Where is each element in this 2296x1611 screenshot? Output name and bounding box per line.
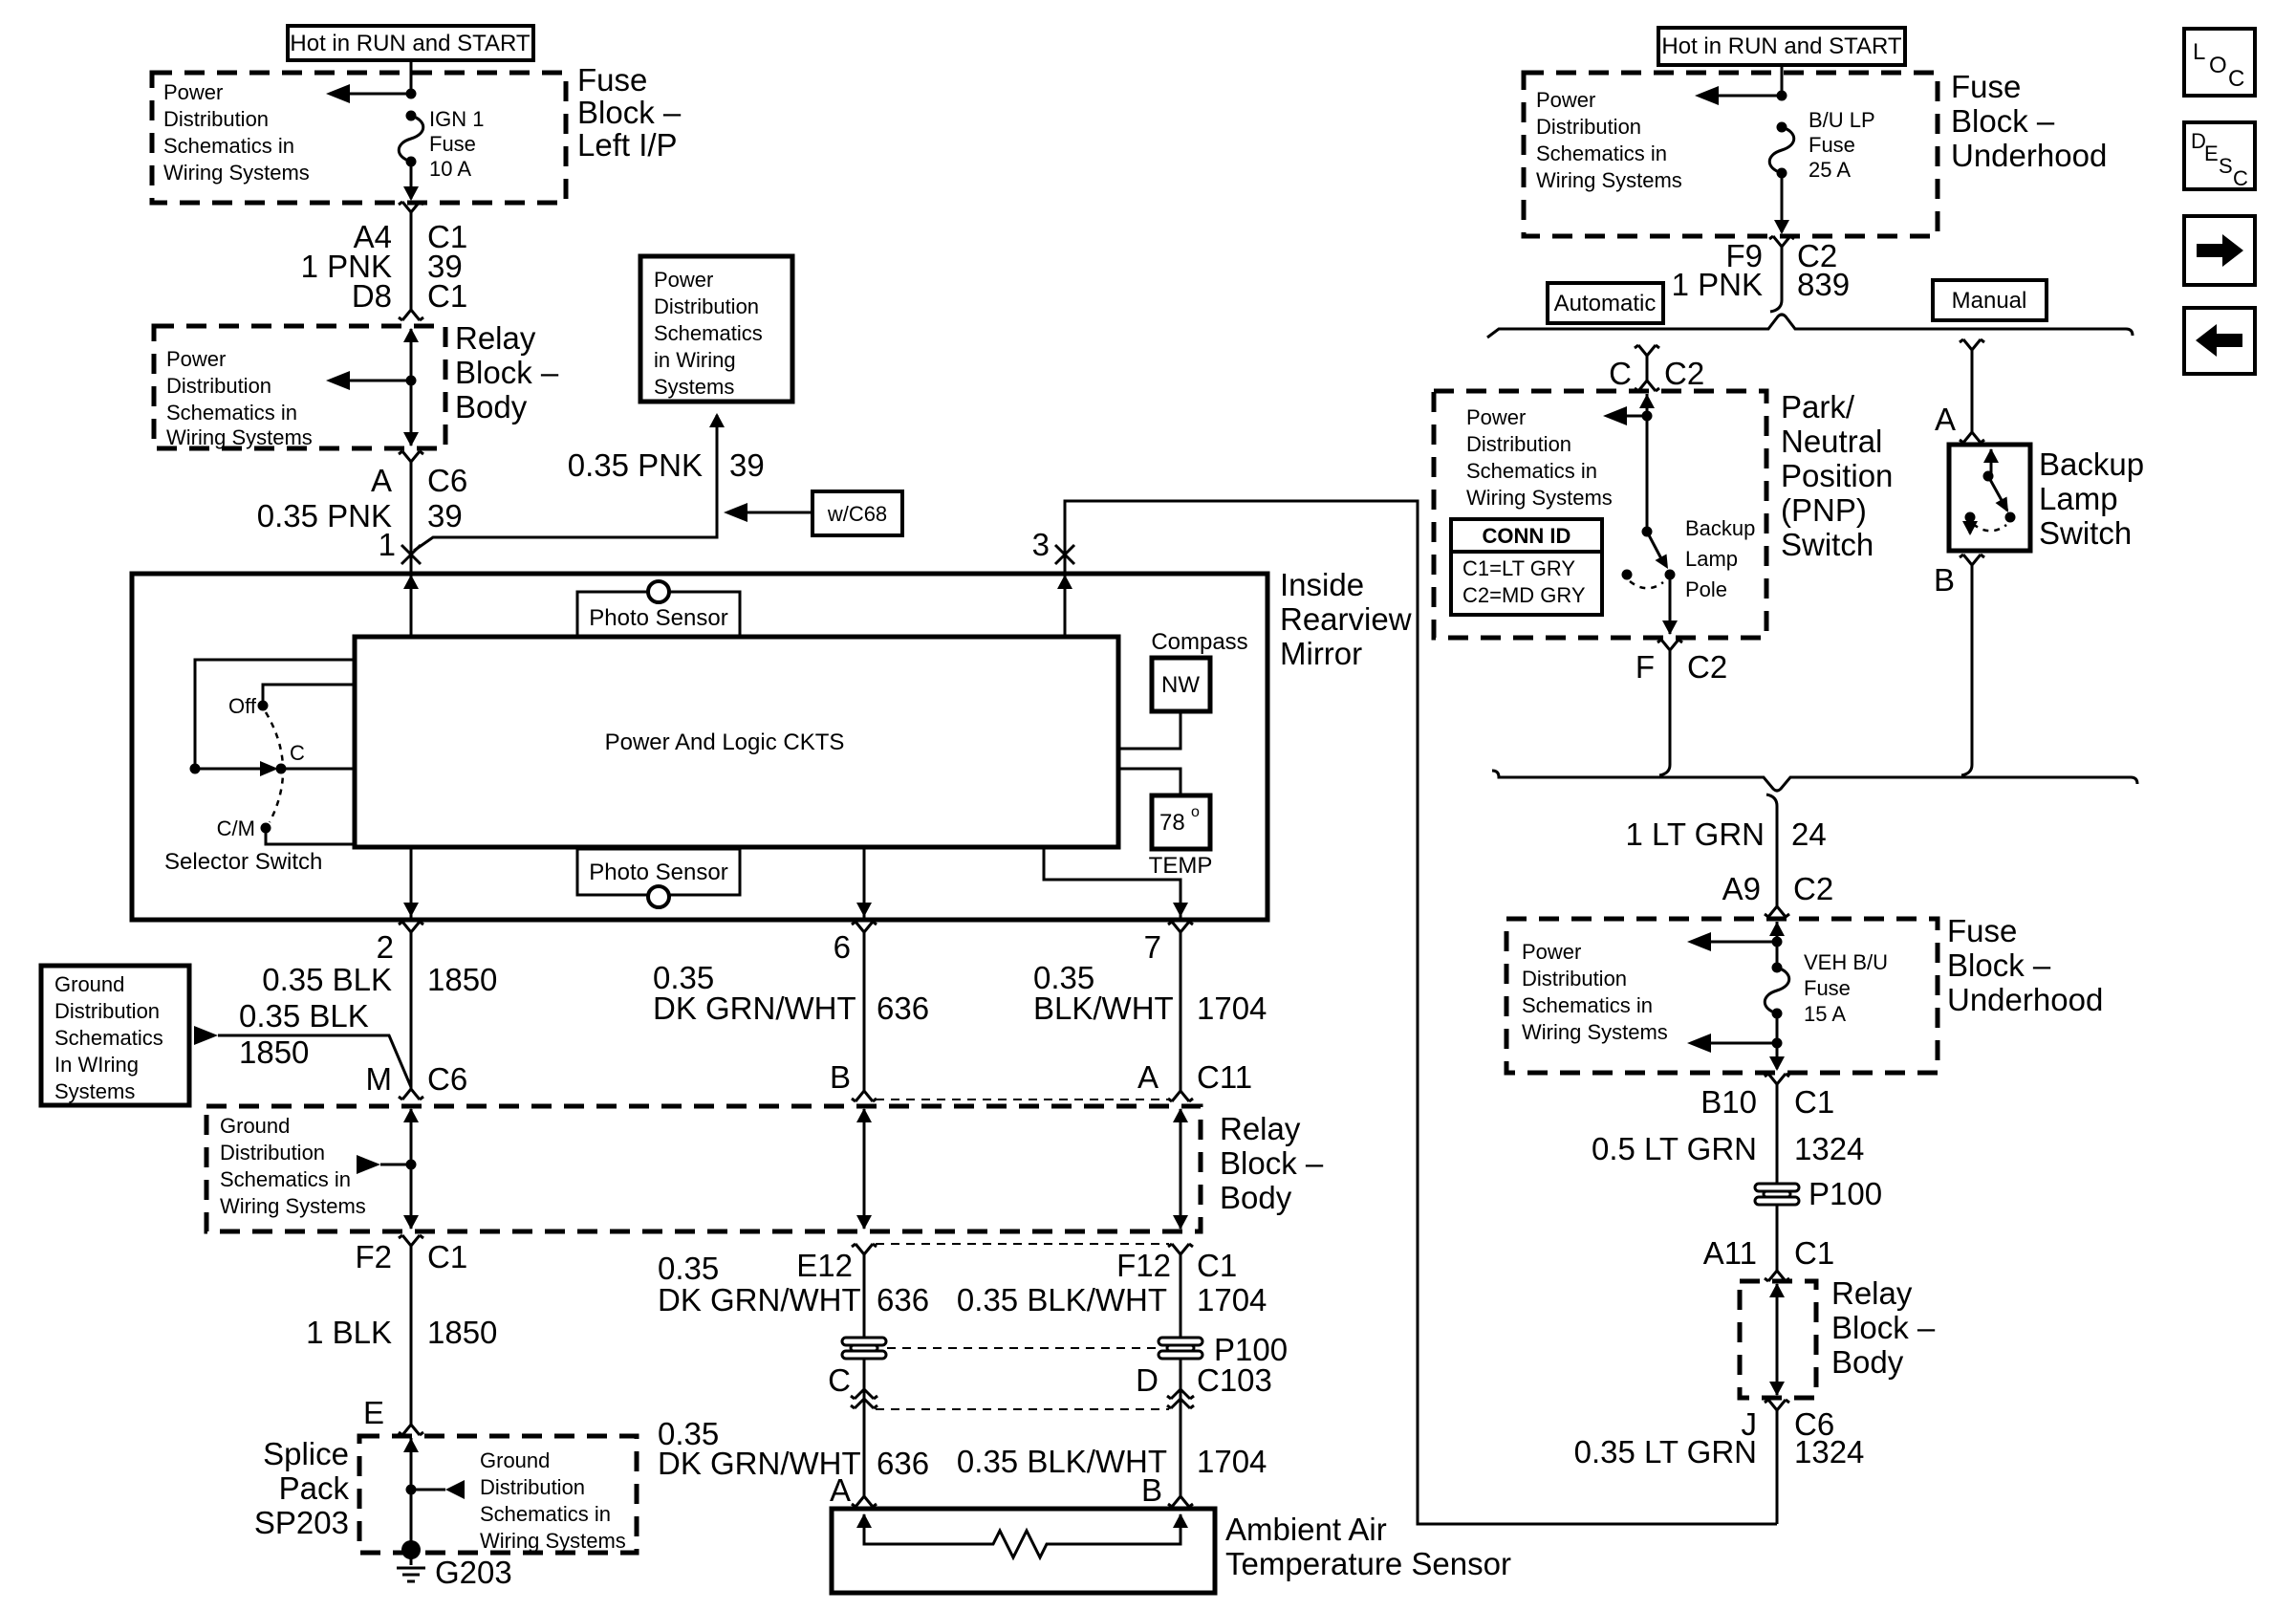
inside rearview mirror outer box [132,574,1267,920]
svg-text:A9: A9 [1722,871,1761,906]
svg-text:Ground: Ground [480,1448,550,1472]
label: J C6 [1742,1406,1835,1442]
svg-text:DK GRN/WHT: DK GRN/WHT [653,991,856,1026]
svg-text:Distribution: Distribution [480,1475,585,1499]
svg-text:Fuse: Fuse [1951,69,2021,104]
label: Park/Neutral Position (PNP) Switch [1781,389,1893,562]
label: Fuse Block - Underhood (lower) [1947,913,2103,1017]
svg-text:Schematics in: Schematics in [166,401,297,425]
svg-text:B: B [830,1059,851,1095]
svg-text:1 LT GRN: 1 LT GRN [1626,816,1765,852]
wire: segment A4 to D8 [410,212,413,312]
wire: branch from pin 1 to PNK 39 riser [414,415,717,551]
label: power distribution note (fuse block underhood) [1536,88,1682,192]
connector C2 female end below fuse block [1769,236,1794,247]
svg-text:2: 2 [377,929,394,965]
svg-text:Compass: Compass [1151,629,1247,655]
photo sensor (bottom) [577,849,740,907]
wire: pin 6 out of power and logic [856,847,872,918]
compass NW box [1152,658,1210,711]
label: power distribution note (PNP) [1466,405,1613,510]
connector A9/C2 male end [1765,906,1789,917]
svg-text:Hot in RUN and START: Hot in RUN and START [1661,33,1902,59]
label: power distribution note (fuse block left) [163,80,310,185]
svg-text:F: F [1635,649,1655,685]
svg-text:Block –: Block – [1951,103,2055,139]
arrow into power distribution box [709,413,725,427]
connector E male end [399,1425,423,1435]
connector A female end (sensor) [852,1496,877,1507]
wire through small relay block with end arrows [1769,1283,1785,1396]
svg-text:Distribution: Distribution [166,374,271,398]
wire: ground reference branch to M/C6 [194,1026,411,1087]
wire: pin 2 out of power and logic [403,847,419,918]
svg-text:0.35 LT GRN: 0.35 LT GRN [1574,1434,1757,1469]
label: D8 C1 [352,278,467,314]
sensor internal circuit with resistor [856,1513,1188,1557]
svg-text:C1: C1 [1794,1084,1834,1120]
svg-text:Block –: Block – [1831,1310,1936,1345]
ambient air temperature sensor box [832,1509,1215,1593]
svg-text:10 A: 10 A [429,157,471,181]
wire: 0.35 BLK 1850 segment [410,932,413,1089]
svg-text:Distribution: Distribution [1536,115,1641,139]
ground G203 [397,1540,425,1581]
label: 1 BLK 1850 [306,1315,497,1350]
label: F2 C1 [355,1239,467,1274]
wire: 1704 segment through P100 [1180,1254,1182,1496]
wire: pin 7 out of power and logic [1044,847,1188,918]
svg-text:Fuse: Fuse [429,132,476,156]
label: ground distribution note (splice pack) [480,1448,626,1553]
svg-text:Temperature Sensor: Temperature Sensor [1225,1546,1511,1581]
wire: J to corner [1776,1410,1779,1524]
fuse IGN 1 10A [399,111,423,167]
connector C103 double chevrons (left) [851,1389,877,1408]
svg-text:Selector Switch: Selector Switch [164,849,322,875]
svg-text:Wiring Systems: Wiring Systems [1466,486,1613,510]
wire into fuse block with arrow [1769,922,1785,971]
svg-text:Power: Power [163,80,223,104]
junction dot + off-page arrow (upper, VEH B/U) [1687,932,1783,951]
node: Manual [1933,280,2047,320]
svg-text:C1: C1 [1794,1235,1834,1271]
svg-text:CONN ID: CONN ID [1483,524,1571,548]
svg-text:Backup: Backup [2039,446,2144,482]
svg-text:1704: 1704 [1197,991,1267,1026]
svg-text:C1: C1 [1197,1248,1237,1283]
svg-text:Pack: Pack [279,1470,350,1506]
svg-text:A: A [371,463,392,498]
connector B female end (sensor) [1168,1496,1193,1507]
svg-text:Power: Power [654,268,713,292]
svg-text:Power: Power [166,347,226,371]
label: 0.35 PNK 39 (riser) [568,447,765,483]
svg-text:0.35 BLK: 0.35 BLK [262,962,392,997]
label: Relay Block - Body [455,320,559,425]
connector C1 male end above relay block [399,310,423,320]
svg-text:C1: C1 [427,1239,467,1274]
svg-text:1704: 1704 [1197,1444,1267,1479]
label: 0.35 DK GRN/WHT 636 (top) [653,960,929,1026]
label: C C2 [1609,356,1704,391]
label: 1 LT GRN 24 [1626,816,1827,852]
wire: segment A/C6 to mirror pin 1 [410,462,413,555]
wire: pin 3 into power and logic [1057,555,1072,637]
svg-text:IGN 1: IGN 1 [429,107,484,131]
node: Automatic [1548,283,1663,323]
svg-text:25 A: 25 A [1809,158,1851,182]
svg-text:Underhood: Underhood [1947,982,2103,1017]
svg-text:636: 636 [877,1282,929,1317]
junction dot + off-page arrow (fuse block underhood) [1695,86,1787,105]
svg-text:Body: Body [1831,1344,1904,1380]
connector B female end [1960,555,1984,565]
svg-text:Wiring Systems: Wiring Systems [220,1194,366,1218]
wire through relay block (636) with end arrows [856,1108,872,1230]
svg-text:Fuse: Fuse [577,62,647,98]
relay block body dashed box (top left) [154,326,445,448]
wire through relay block with end arrows [403,328,419,446]
svg-text:Body: Body [455,389,528,425]
svg-text:1850: 1850 [427,962,497,997]
svg-text:M: M [366,1061,393,1097]
connector C2 female end on automatic branch [1635,345,1659,356]
svg-text:B: B [1141,1472,1162,1508]
label: Ambient Air Temperature Sensor [1225,1512,1511,1581]
svg-text:Photo Sensor: Photo Sensor [589,605,727,631]
label: Splice Pack SP203 [254,1436,350,1540]
wire: B10 to A11 segment [1776,1084,1779,1271]
svg-text:Schematics in: Schematics in [1536,142,1667,165]
svg-text:Distribution: Distribution [1466,432,1571,456]
wire: 1704 segment mirror to relay block [1180,932,1182,1091]
svg-text:SP203: SP203 [254,1505,349,1540]
svg-text:Inside: Inside [1280,567,1364,602]
selector switch wiring [190,660,356,844]
svg-text:S: S [2219,154,2233,178]
wire: fuse output with arrow to box edge [1769,1013,1785,1071]
svg-text:C11: C11 [1197,1059,1252,1095]
svg-text:1 BLK: 1 BLK [306,1315,392,1350]
svg-text:Schematics in: Schematics in [163,134,294,158]
svg-text:15 A: 15 A [1804,1002,1846,1026]
svg-text:E12: E12 [796,1248,853,1283]
svg-text:Block –: Block – [577,95,682,130]
label: power distribution note (fuse block underhood lower) [1522,940,1668,1044]
svg-text:Splice: Splice [263,1436,349,1471]
svg-text:Switch: Switch [2039,515,2132,551]
label: 0.35 LT GRN 1324 [1574,1434,1865,1469]
wire: rail to A9 with curl [1766,795,1777,906]
wire through relay block (1704) with end arrows [1173,1108,1188,1230]
wire: power and logic to temp display [1118,769,1180,795]
svg-text:C1: C1 [427,278,467,314]
svg-text:C103: C103 [1197,1362,1272,1398]
svg-text:Body: Body [1220,1180,1292,1215]
svg-text:Distribution: Distribution [163,107,269,131]
PNP switch contacts [1622,527,1676,589]
fuse VEH B/U 15A [1765,963,1789,1019]
svg-text:C2=MD GRY: C2=MD GRY [1462,583,1586,607]
PNP switch dashed box [1434,391,1766,638]
svg-text:39: 39 [729,447,765,483]
svg-text:C/M: C/M [217,816,255,840]
node: Hot in RUN and START (left) [288,26,533,60]
connector A male end [1960,432,1984,443]
svg-text:Distribution: Distribution [1522,967,1627,991]
connector pin 6 below mirror [852,922,877,932]
label: 1 PNK 39 [301,249,463,284]
svg-text:24: 24 [1791,816,1827,852]
connector C6 female end below relay block [399,451,423,462]
CONN ID table [1451,519,1602,615]
wire: automatic branch down [1646,356,1649,381]
connector pin 7 below mirror [1168,922,1193,932]
connector C1 female end below fuse block [399,202,423,212]
svg-text:3: 3 [1032,527,1050,562]
wire through relay block (1850) with end arrows [403,1108,419,1230]
connector C103 double chevrons (right) [1167,1389,1194,1408]
svg-text:Power: Power [1536,88,1595,112]
label: B10 C1 [1700,1084,1834,1120]
wire: manual branch down [1971,350,1974,432]
svg-text:C: C [828,1362,851,1398]
grommet P100 (right) [1159,1338,1202,1359]
legend right-arrow box [2184,216,2255,285]
junction dot + off-page arrow (PNP) [1603,406,1653,425]
thin dashed tie below relay block [876,1243,1169,1245]
label: 0.35 BLK 1850 [262,962,497,997]
svg-text:NW: NW [1161,672,1200,698]
label: 0.35 BLK/WHT 1704 (middle) [957,1282,1267,1317]
wire: distribution rail (bottom) [1492,771,2137,791]
svg-text:Fuse: Fuse [1804,976,1851,1000]
fuse block left I/P dashed box [152,73,566,203]
label: 0.35 BLK/WHT 1704 (top) [1033,960,1267,1026]
svg-text:0.35 PNK: 0.35 PNK [257,498,392,533]
wire into PNP with arrow [1639,394,1655,532]
svg-text:B: B [1934,562,1955,598]
connector pin 2 below mirror [399,922,423,932]
legend LOC box [2184,29,2255,96]
label: VEH B/U Fuse 15 A [1804,950,1888,1026]
svg-text:Schematics in: Schematics in [1522,993,1653,1017]
svg-text:1324: 1324 [1794,1434,1864,1469]
connector J/C6 female end [1765,1400,1789,1410]
svg-text:Schematics in: Schematics in [220,1167,351,1191]
svg-text:Switch: Switch [1781,527,1874,562]
node: Hot in RUN and START (right) [1658,28,1905,65]
svg-text:0.35: 0.35 [658,1251,719,1286]
svg-text:0.35 BLK: 0.35 BLK [239,998,369,1034]
wire: w/C68 arrow to riser [724,503,812,522]
svg-text:C6: C6 [427,1061,467,1097]
svg-text:7: 7 [1144,929,1161,965]
junction dot + reference arrow (splice pack) [406,1480,466,1499]
svg-text:C: C [1609,356,1632,391]
wire: 636 segment through P100 [863,1254,866,1496]
label: Relay Block - Body (right of box) [1220,1111,1324,1215]
wire: hot feed into fuse block underhood [1781,65,1784,96]
thin dashed tie at C103 [876,1408,1169,1410]
svg-text:E: E [363,1395,384,1430]
svg-text:A11: A11 [1703,1235,1757,1271]
grommet P100 (left) [842,1338,886,1359]
wire: F9 segment to rail [1770,247,1782,312]
connector M/C6 [399,1089,423,1099]
label: power distribution note (relay block body) [166,347,313,449]
svg-text:Relay: Relay [455,320,536,356]
svg-text:39: 39 [427,498,463,533]
label: A C6 [371,463,467,498]
relay block body dashed box (bottom, wide) [206,1106,1201,1231]
fuse block underhood dashed box (top) [1524,73,1938,236]
label: A C11 [1137,1059,1252,1095]
label: power distribution note (middle box) [654,268,763,399]
label: 0.35 PNK 39 [257,498,463,533]
svg-text:Schematics: Schematics [54,1026,163,1050]
svg-text:O: O [2209,53,2227,78]
connector A11 male end [1765,1271,1789,1281]
svg-text:Schematics in: Schematics in [480,1502,611,1526]
power and logic CKTS box [355,637,1118,847]
temp display 78 deg box [1152,795,1210,849]
backup lamp switch box [1949,445,2030,551]
svg-text:Lamp: Lamp [2039,481,2118,516]
svg-text:Block –: Block – [1947,947,2051,983]
svg-text:Block –: Block – [1220,1145,1324,1181]
label: B/U LP Fuse 25 A [1809,108,1875,182]
svg-text:Wiring Systems: Wiring Systems [166,425,313,449]
label: 0.35 BLK/WHT 1704 (bottom) [957,1444,1267,1479]
svg-text:Distribution: Distribution [54,999,160,1023]
svg-text:C: C [2228,66,2244,92]
legend left-arrow box [2184,308,2255,374]
svg-text:Left I/P: Left I/P [577,127,678,163]
svg-text:BLK/WHT: BLK/WHT [1033,991,1174,1026]
svg-text:1: 1 [379,527,396,562]
svg-text:Ground: Ground [54,972,124,996]
svg-text:0.35 BLK/WHT: 0.35 BLK/WHT [957,1444,1167,1479]
svg-text:6: 6 [834,929,851,965]
svg-text:F2: F2 [355,1239,392,1274]
wire into splice pack with arrow [403,1438,419,1550]
svg-text:DK GRN/WHT: DK GRN/WHT [658,1282,861,1317]
grommet P100 (right column) [1755,1184,1799,1205]
label: M C6 [366,1061,468,1097]
thin dashed tie at P100 [887,1347,1158,1349]
connector C2 female end below PNP [1657,640,1682,650]
svg-text:0.35 PNK: 0.35 PNK [568,447,703,483]
svg-text:Wiring Systems: Wiring Systems [1522,1020,1668,1044]
label: ground distribution note (solid box) [54,972,163,1103]
label: Fuse Block - Underhood (top) [1951,69,2107,173]
svg-text:Block –: Block – [455,355,559,390]
wire: F branch to lower rail [1659,650,1670,775]
fuse B/U LP 25A [1769,122,1794,179]
svg-text:Wiring Systems: Wiring Systems [163,161,310,185]
svg-text:Hot in RUN and START: Hot in RUN and START [290,31,531,56]
svg-text:1 PNK: 1 PNK [1672,267,1763,302]
label: 0.35 DK GRN/WHT 636 (bottom) [658,1416,929,1481]
power distribution schematics solid box (middle) [640,256,792,402]
svg-text:Park/: Park/ [1781,389,1855,425]
label: ground distribution note (relay block) [220,1114,366,1218]
svg-text:D8: D8 [352,278,392,314]
fuse block underhood dashed box (lower) [1506,919,1938,1073]
svg-text:in Wiring: in Wiring [654,348,736,372]
junction dot + off-page arrow (lower, VEH B/U) [1687,1034,1783,1053]
svg-text:L: L [2193,39,2205,65]
svg-text:1850: 1850 [427,1315,497,1350]
thin dashed tie above relay block [876,1099,1169,1100]
connector F12 female end [1168,1244,1193,1254]
connector female end on manual branch [1960,339,1984,350]
svg-text:TEMP: TEMP [1149,853,1213,879]
label: A4 C1 [354,219,468,254]
wire: pin 1 into power and logic [403,555,419,637]
wire: fuse output with arrow to box edge [403,162,419,201]
svg-text:Power And Logic CKTS: Power And Logic CKTS [605,729,845,755]
mirror pin 3 connector X [1055,545,1074,564]
svg-text:Ambient Air: Ambient Air [1225,1512,1387,1547]
svg-text:Fuse: Fuse [1947,913,2017,948]
svg-text:o: o [1191,804,1200,820]
svg-text:Position: Position [1781,458,1893,493]
svg-text:Power: Power [1522,940,1581,964]
connector C1 female end below fuse block [1765,1074,1789,1084]
svg-text:Photo Sensor: Photo Sensor [589,860,727,885]
svg-text:(PNP): (PNP) [1781,492,1867,528]
svg-text:C1=LT GRY: C1=LT GRY [1462,556,1575,580]
label: A9 C2 [1722,871,1834,906]
svg-text:Schematics: Schematics [654,321,763,345]
svg-text:Rearview: Rearview [1280,601,1412,637]
svg-text:C2: C2 [1664,356,1704,391]
svg-text:0.5 LT GRN: 0.5 LT GRN [1592,1131,1757,1166]
label: 0.5 LT GRN 1324 [1592,1131,1864,1166]
label: Inside Rearview Mirror [1280,567,1412,671]
svg-text:Relay: Relay [1220,1111,1301,1146]
svg-text:Off: Off [228,694,257,718]
label: 0.35 DK GRN/WHT 636 (middle) [658,1251,929,1317]
svg-text:D: D [1136,1362,1159,1398]
junction dot + ground reference arrow (wire 1850) [357,1155,417,1174]
svg-text:Fuse: Fuse [1809,133,1855,157]
wire: hot feed into fuse block left [410,60,413,94]
svg-text:0.35 BLK/WHT: 0.35 BLK/WHT [957,1282,1167,1317]
label: IGN 1 Fuse 10 A [429,107,484,181]
svg-text:1324: 1324 [1794,1131,1864,1166]
svg-text:Underhood: Underhood [1951,138,2107,173]
svg-text:Relay: Relay [1831,1275,1913,1311]
wire: 636 segment mirror to relay block [863,932,866,1091]
connector F2/C1 female end [399,1235,423,1246]
svg-text:B/U LP: B/U LP [1809,108,1875,132]
node: w/C68 reference [812,491,902,535]
svg-text:636: 636 [877,1446,929,1481]
svg-text:A: A [1935,402,1956,437]
wire: fuse output with arrow to box edge [1774,173,1789,234]
svg-text:Wiring Systems: Wiring Systems [480,1529,626,1553]
svg-text:A: A [830,1472,851,1508]
svg-text:C2: C2 [1687,649,1727,685]
svg-text:In WIring: In WIring [54,1053,139,1077]
label: Fuse Block - Left I/P [577,62,682,163]
svg-text:636: 636 [877,991,929,1026]
svg-text:Wiring Systems: Wiring Systems [1536,168,1682,192]
